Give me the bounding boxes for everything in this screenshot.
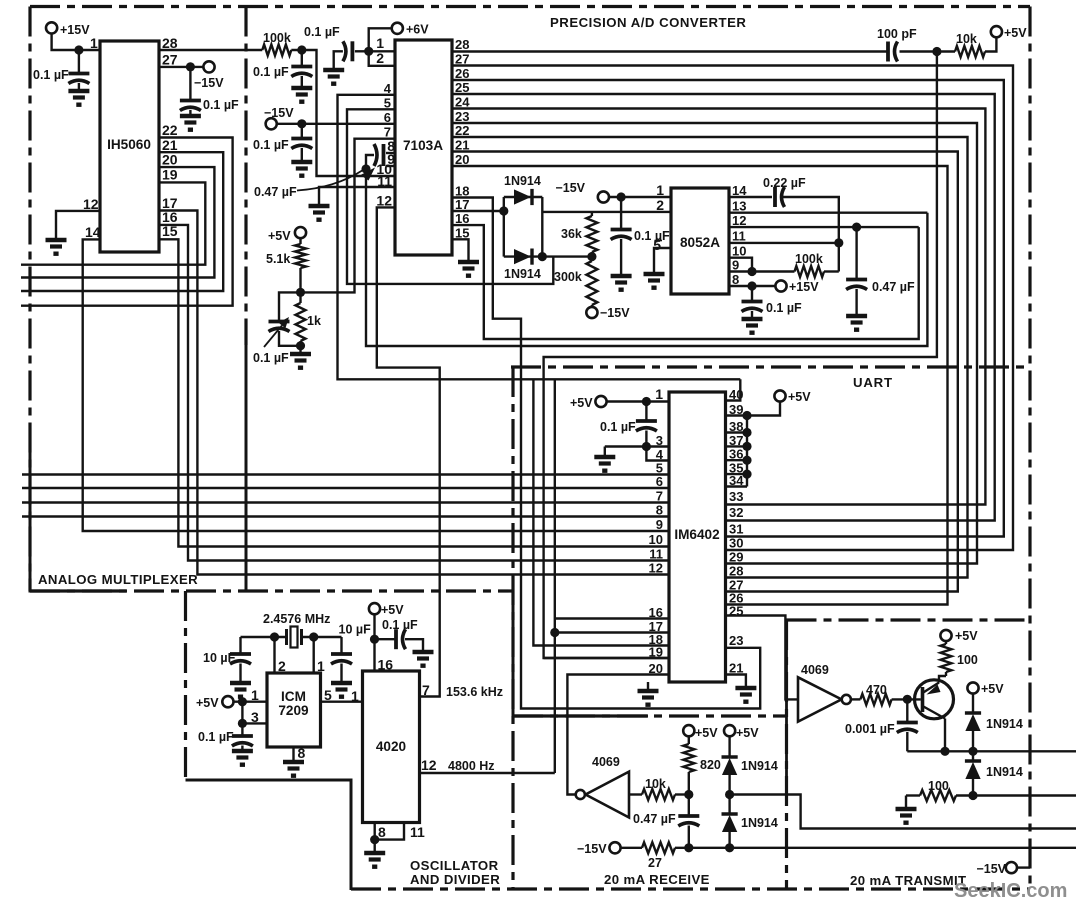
capacitor 10uF left [239, 637, 241, 653]
node pin-17 clock junction [550, 628, 559, 637]
capacitor 0.001uF [906, 699, 908, 721]
UART U4 IM6402 [669, 392, 726, 682]
wire IH5060 pin 27 to -15V [159, 66, 204, 68]
border: left edge of ANALOG MULTIPLEXER box [28, 7, 31, 592]
ground below 0.47uF [846, 314, 867, 318]
bus wire left input to IM6402 pin 8 [22, 515, 669, 517]
ICM7209 pin 8 ground [292, 747, 294, 760]
node 36k/300k junction [587, 252, 596, 261]
terminal +5V at 4020 pin 16 [369, 603, 380, 614]
wire 7103A pin 18 to IM6402 pin 23 (strobe) [452, 198, 760, 709]
resistor 27 [620, 847, 642, 849]
svg-text:OSCILLATOR: OSCILLATOR [410, 858, 499, 873]
svg-text:6: 6 [656, 474, 663, 489]
ground at IH5060 pin 12 [46, 238, 67, 242]
wire IH5060 pin 17 down to bus line 8 (IM6402 pin 12) [159, 211, 669, 575]
1N914 clamp loop wires [503, 197, 505, 257]
svg-text:+5V: +5V [196, 696, 219, 710]
ICM7209 pin 1 stub [313, 637, 315, 673]
ICM7209 pin 2 stub [273, 637, 275, 673]
ground below +6V cap [323, 68, 344, 72]
wire +6V to 7103A pins 1,2 [369, 28, 395, 66]
terminal -15V at pin 27 [203, 61, 214, 72]
svg-text:28: 28 [729, 564, 743, 579]
svg-text:100 pF: 100 pF [877, 27, 917, 41]
node pin-1 bypass junction [642, 397, 651, 406]
ground below 8052A pin-1 cap [611, 274, 632, 278]
wire 7103A pin 7 down to reference divider [300, 139, 395, 293]
svg-text:−15V: −15V [555, 181, 585, 195]
wire IM6402 pin 20 from receive inverter [567, 675, 669, 795]
crystal 2.4576 MHz [285, 629, 288, 645]
bus wire 7103A pin 26 to IM6402 pin 31 [452, 80, 1004, 537]
ground below -15V cap [291, 160, 312, 164]
svg-text:+5V: +5V [268, 229, 291, 243]
svg-text:5: 5 [324, 687, 332, 703]
resistor 100 collector [941, 644, 952, 672]
svg-text:8: 8 [656, 503, 663, 518]
capacitor 0.22 uF [773, 187, 777, 207]
wire 8052A pin 2 to 36k [542, 211, 671, 213]
svg-text:10: 10 [649, 532, 663, 547]
bus wire 7103A pin 24 to IM6402 pin 33 [452, 109, 985, 505]
svg-text:1N914: 1N914 [504, 267, 541, 281]
wire RC node down to IM6402 pin-19 loop [544, 52, 937, 659]
svg-text:0.1 µF: 0.1 µF [33, 68, 69, 82]
ground at IM6402 pin 3 [594, 455, 615, 459]
capacitor 0.1uF at ICM7209 [241, 723, 243, 734]
border: right edge of diagram (A/D, UART, transmit boxes) [1028, 7, 1031, 890]
svg-text:3: 3 [251, 709, 259, 725]
wire +15V to IH5060 pin 1 [52, 33, 100, 50]
node transistor base junction [903, 695, 912, 704]
terminal -15V transmit [1006, 862, 1017, 873]
svg-text:31: 31 [729, 522, 743, 537]
svg-text:22: 22 [162, 122, 178, 138]
node pins 9/10 junction [747, 267, 756, 276]
bus wire 7103A pin 25 to IM6402 pin 32 [452, 94, 995, 521]
wire 8052A pin 12 (to 7103A pin-16 loop) [729, 226, 919, 228]
resistor 470 [851, 698, 860, 700]
svg-text:0.001 µF: 0.001 µF [845, 722, 895, 736]
wire 8052A pin 5 to ground [654, 248, 671, 272]
svg-text:PRECISION A/D CONVERTER: PRECISION A/D CONVERTER [550, 15, 746, 30]
border: solid lower part of multiplexer divider [245, 345, 248, 593]
svg-text:25: 25 [455, 80, 469, 95]
svg-text:12: 12 [649, 561, 663, 576]
ground below left 10uF [230, 681, 251, 685]
svg-text:7209: 7209 [278, 703, 309, 718]
svg-text:2: 2 [278, 658, 286, 674]
svg-text:8: 8 [378, 824, 386, 840]
wire 100k to +6V bypass node and riser to 7103A pin 10 net [291, 50, 395, 176]
svg-text:153.6 kHz: 153.6 kHz [446, 685, 503, 699]
svg-text:1N914: 1N914 [741, 759, 778, 773]
svg-text:+5V: +5V [788, 390, 811, 404]
collector to 100 pull-up [939, 676, 946, 683]
svg-text:4020: 4020 [376, 739, 406, 754]
transistor Q1 (20 mA driver) [915, 680, 954, 719]
wire IM6402 pin 17 [555, 631, 669, 633]
border: solid lower stretch of left edge [29, 445, 32, 593]
bus wire 7103A pin 22 to IM6402 pin 28 [452, 137, 968, 578]
terminal +5V above 820 [683, 725, 694, 736]
wire ICM7209 pin 5 to 4020 pin 1 [321, 701, 363, 703]
bus wire 7103A pin 21 to IM6402 pin 27 [452, 152, 958, 592]
svg-text:10k: 10k [956, 32, 977, 46]
ground below 4020 cap [413, 650, 434, 654]
svg-text:10 µF: 10 µF [203, 651, 236, 665]
capacitor 0.1uF at pin 27 [189, 67, 191, 99]
node pins 3/4 junction [642, 442, 651, 451]
svg-text:0.1 µF: 0.1 µF [253, 138, 289, 152]
svg-text:22: 22 [455, 123, 469, 138]
ground at 8052A pin 5 [644, 272, 665, 276]
node emitter junction [940, 747, 949, 756]
svg-text:100: 100 [957, 653, 978, 667]
svg-text:19: 19 [162, 167, 178, 183]
border: oscillator box left edge [184, 591, 187, 780]
ground below 100k-junction cap [291, 86, 312, 90]
receive loop line to right edge [730, 795, 1076, 829]
4020 pin 11 tie [375, 823, 404, 840]
svg-text:7103A: 7103A [403, 138, 443, 153]
node 0.47uF junction on pin 12 wire [852, 223, 861, 232]
diode 1N914 transmit upper [972, 693, 974, 713]
oscillator U5 ICM7209 [267, 673, 321, 747]
wire IM6402 pin 40 loop [726, 379, 741, 400]
svg-text:0.1 µF: 0.1 µF [304, 25, 340, 39]
terminal +5V above receive diode [724, 725, 735, 736]
border: multiplexer bottom / oscillator top [30, 589, 513, 592]
ground below pin-27 cap [180, 114, 201, 118]
resistor 36k [586, 216, 597, 252]
bus wire left input to IM6402 pin 6 [22, 487, 669, 489]
svg-text:−15V: −15V [194, 76, 224, 90]
terminal +6V [392, 23, 403, 34]
wire IH5060 pin 19 loop to left edge (analog input) [21, 182, 205, 264]
terminal +5V at 10k [991, 26, 1002, 37]
resistor 5.1k with +5V [295, 227, 306, 238]
svg-text:+5V: +5V [570, 396, 593, 410]
svg-text:8: 8 [298, 745, 306, 761]
terminal -15V below 300k [586, 307, 597, 318]
svg-text:0.22 µF: 0.22 µF [763, 176, 806, 190]
ground at transmit 100 [896, 807, 917, 811]
ground at IM6402 pin 20 side [647, 682, 649, 689]
wire 8052A pin 11 [729, 242, 839, 244]
terminal +5V above 100 [940, 630, 951, 641]
wire overlap on divider (pin-25 / loop wire) [785, 620, 788, 796]
svg-text:0.47 µF: 0.47 µF [872, 280, 915, 294]
svg-text:21: 21 [729, 661, 743, 676]
node reference divider bottom [296, 341, 305, 350]
svg-text:AND DIVIDER: AND DIVIDER [410, 872, 500, 887]
terminal +5V above transmit diode [967, 682, 978, 693]
svg-text:4800 Hz: 4800 Hz [448, 759, 495, 773]
wire 7103A pin 15 to ground [452, 239, 469, 260]
resistor 820 pull-up [688, 736, 690, 744]
node reference divider top [296, 288, 305, 297]
svg-text:1: 1 [317, 658, 325, 674]
ground at 7103A pin 15 [458, 260, 479, 264]
vertical tie line pins 40/16/17 and 4800Hz [554, 379, 556, 773]
svg-text:17: 17 [455, 197, 469, 212]
wire 8052A pin 10 jog to pin 9 [729, 258, 752, 272]
bus wire left input to IM6402 pin 5 [22, 473, 669, 475]
svg-text:20 mA TRANSMIT: 20 mA TRANSMIT [850, 873, 966, 888]
wire 7103A pin 11 to ground [319, 187, 395, 204]
wire crystal left to 10uF [241, 636, 287, 638]
wire 8052A pin 13 (to 7103A pin-10 loop) [729, 211, 927, 213]
svg-text:27: 27 [648, 856, 662, 870]
svg-text:20: 20 [162, 152, 178, 168]
emitter to output line [944, 719, 946, 752]
svg-text:300k: 300k [554, 270, 582, 284]
svg-text:+6V: +6V [406, 22, 429, 36]
node 100-ohm junction [968, 791, 977, 800]
svg-text:28: 28 [455, 37, 469, 52]
svg-text:0.1 µF: 0.1 µF [600, 420, 636, 434]
border: overall top edge (ANALOG MULTIPLEXER / PRECISION A/D CONVERTER boxes) [30, 5, 1030, 8]
svg-text:IH5060: IH5060 [107, 137, 151, 152]
capacitor 0.47uF between 7103A pins 8 and 9 [386, 152, 395, 154]
terminal +5V at IM6402 pin 1 [595, 396, 606, 407]
svg-text:21: 21 [455, 138, 469, 153]
node reference cap to pin 10 [361, 164, 370, 173]
svg-text:+15V: +15V [789, 280, 819, 294]
wire +5V to 4020 pin 16 [373, 614, 375, 671]
svg-text:14: 14 [732, 183, 747, 198]
node -15V junction [297, 119, 306, 128]
svg-text:0.1 µF: 0.1 µF [382, 618, 418, 632]
diode 1N914 receive lower [728, 795, 730, 815]
ground below pin-8 cap [742, 317, 763, 321]
border: divider between ANALOG MULTIPLEXER and A/D converter [244, 7, 247, 346]
svg-text:27: 27 [162, 52, 178, 68]
svg-text:13: 13 [732, 199, 746, 214]
wire 7103A pin 28 to 100pF / 10k node [452, 50, 888, 52]
capacitor 0.1uF at -15V line [301, 124, 303, 137]
svg-text:+5V: +5V [736, 726, 759, 740]
wire 7103A pin 17 to 1N914 clamp [452, 210, 504, 212]
node pin-8 bypass junction [747, 281, 756, 290]
svg-text:2: 2 [656, 197, 664, 213]
svg-text:0.47 µF: 0.47 µF [633, 812, 676, 826]
capacitor 0.1uF at IM6402 pin 1 [645, 402, 647, 420]
capacitor 0.1uF at 8052A pin 1 [620, 197, 622, 228]
capacitor 0.1uF at +6V [355, 50, 369, 52]
border: receive/transmit divider [785, 620, 788, 889]
resistor 1k [296, 303, 306, 341]
svg-text:11: 11 [649, 547, 663, 562]
svg-text:ANALOG MULTIPLEXER: ANALOG MULTIPLEXER [38, 572, 198, 587]
node pin1 bypass junction [74, 45, 83, 54]
wire IM6402 pin 25 to transmit inverter [726, 616, 799, 700]
wire 4800 Hz from 4020 pin 12 [420, 772, 555, 774]
svg-text:100: 100 [928, 779, 949, 793]
wire +5V to pin 39 [726, 401, 781, 415]
svg-text:1N914: 1N914 [986, 765, 1023, 779]
svg-text:36k: 36k [561, 227, 582, 241]
wire IM6402 pin 19 (from comparator node) [544, 657, 669, 659]
diode 1N914 upper clamp [514, 189, 531, 204]
capacitor 10uF right [340, 637, 342, 653]
svg-text:0.1 µF: 0.1 µF [634, 229, 670, 243]
node +6V junction [364, 47, 373, 56]
ground at IM6402 pin 21 [735, 686, 756, 690]
svg-text:1: 1 [251, 687, 259, 703]
bus wire 7103A pin 23 to IM6402 pin 29 [452, 123, 977, 564]
terminal +5V at ICM7209 pin 1 [222, 696, 233, 707]
terminal +5V at IM6402 pin 39 [774, 390, 785, 401]
svg-text:12: 12 [83, 196, 99, 212]
border: 20 mA RECEIVE box top [513, 714, 787, 717]
riser from pin-4 line to IM6402 pin 18 [533, 379, 669, 645]
node 27-ohm junctions [684, 843, 693, 852]
wire IH5060 pin 12 to ground [56, 211, 100, 238]
wire IH5060 pin 16 down to bus line 7 (IM6402 pin 11) [159, 225, 669, 561]
svg-text:32: 32 [729, 505, 743, 520]
node crystal right [309, 632, 318, 641]
ground below right 10uF [331, 681, 352, 685]
svg-text:30: 30 [729, 536, 743, 551]
4020 pin 8 ground [374, 823, 376, 840]
svg-text:9: 9 [656, 517, 663, 532]
svg-text:7: 7 [422, 682, 430, 698]
wire 7103A pin 4 to IM6402 pin-40 net [338, 95, 741, 380]
svg-text:9: 9 [732, 258, 739, 273]
svg-text:29: 29 [729, 550, 743, 565]
svg-text:28: 28 [162, 35, 178, 51]
svg-text:4069: 4069 [801, 663, 829, 677]
wire IH5060 pin 21 loop to left edge (analog input) [21, 152, 223, 291]
resistor 100k feedback [795, 266, 825, 277]
border: oscillator box solid step bottom-left [186, 780, 352, 890]
border: oscillator right / UART-receive left edge [511, 367, 514, 889]
wire 7103A pin 5 down to diode junction line [347, 109, 553, 284]
svg-text:−15V: −15V [577, 842, 607, 856]
node 4020 supply junction [370, 635, 379, 644]
svg-text:12: 12 [732, 213, 746, 228]
svg-text:2.4576 MHz: 2.4576 MHz [263, 612, 330, 626]
svg-text:24: 24 [455, 95, 470, 110]
node 100k junction [297, 45, 306, 54]
wire IH5060 pin 28 to 100k [159, 49, 262, 51]
svg-text:−15V: −15V [976, 862, 1006, 876]
svg-text:16: 16 [455, 211, 469, 226]
svg-text:23: 23 [455, 109, 469, 124]
svg-text:0.1 µF: 0.1 µF [203, 98, 239, 112]
svg-text:16: 16 [378, 657, 394, 673]
svg-text:100k: 100k [795, 252, 823, 266]
bus wire left input to IM6402 pin 7 [22, 501, 669, 503]
terminal +15V [775, 280, 786, 291]
terminal -15V at 8052A pin 1 [598, 191, 609, 202]
border: bottom edge of diagram [351, 887, 1030, 890]
inverter U7b 4069 (transmit) [798, 677, 842, 721]
svg-text:0.1 µF: 0.1 µF [253, 65, 289, 79]
capacitor 0.1uF at 100k junction [301, 50, 303, 65]
wire 7103A pin 16 to 8052A pin-12 loop [452, 225, 919, 339]
wire 0.22uF to feedback node [782, 197, 839, 272]
capacitor 0.1uF at 8052A pin 8 [751, 286, 753, 300]
resistor 10k to +5V [937, 50, 955, 52]
svg-text:+5V: +5V [1004, 26, 1027, 40]
svg-text:10 µF: 10 µF [339, 623, 372, 637]
svg-text:1N914: 1N914 [986, 717, 1023, 731]
svg-text:100k: 100k [263, 31, 291, 45]
wire ICM7209 pin 3 tie [241, 702, 243, 724]
node clamp cathode junction [538, 252, 547, 261]
resistor 100 to ground [905, 796, 907, 808]
diode 1N914 receive upper [728, 736, 730, 757]
svg-text:12: 12 [421, 757, 437, 773]
divider U6 4020 [363, 671, 420, 823]
wire IM6402 pin 4 tie [646, 447, 669, 461]
node comparator RC junction [932, 47, 941, 56]
diode 1N914 lower clamp [514, 249, 531, 264]
svg-text:5.1k: 5.1k [266, 252, 290, 266]
bus wire 7103A pin 20 to IM6402 pin 26 [452, 166, 948, 605]
svg-text:−15V: −15V [600, 306, 630, 320]
svg-text:0.47 µF: 0.47 µF [254, 185, 297, 199]
svg-text:+5V: +5V [381, 603, 404, 617]
tie rail pins 38-34 to +5V [746, 416, 748, 487]
border: UART box top [511, 365, 1030, 368]
svg-text:1: 1 [90, 35, 98, 51]
node crystal left [270, 632, 279, 641]
wire IH5060 pin 15 down to bus line 6 (IM6402 pin 10) [159, 239, 669, 546]
svg-text:470: 470 [866, 683, 887, 697]
svg-text:0.1 µF: 0.1 µF [766, 301, 802, 315]
svg-text:+5V: +5V [981, 682, 1004, 696]
wire IM6402 pin 3 to ground [605, 445, 669, 447]
svg-text:20 mA RECEIVE: 20 mA RECEIVE [604, 872, 710, 887]
node feedback junction on pin 11 wire [834, 238, 843, 247]
diode 1N914 transmit lower [972, 751, 974, 761]
svg-text:23: 23 [729, 633, 743, 648]
capacitor 0.47uF receive [688, 795, 690, 815]
svg-text:IM6402: IM6402 [674, 527, 720, 542]
svg-text:1: 1 [351, 688, 359, 704]
wire IM6402 pin 16 tie [555, 617, 669, 619]
arrowhead on pin 10 wire [361, 168, 376, 181]
svg-text:33: 33 [729, 489, 743, 504]
svg-text:8052A: 8052A [680, 235, 720, 250]
svg-text:6: 6 [384, 110, 391, 125]
ground at 7103A pin 11 [309, 204, 330, 208]
node 8052A pin-1 junction [617, 192, 626, 201]
svg-text:11: 11 [410, 824, 425, 840]
svg-text:1N914: 1N914 [741, 816, 778, 830]
svg-text:11: 11 [732, 229, 746, 244]
resistor 10k receive [629, 793, 642, 795]
svg-text:1: 1 [655, 386, 663, 402]
svg-text:20: 20 [455, 152, 469, 167]
border: 20 mA TRANSMIT box top [787, 618, 1031, 621]
inverter U7a 4069 (receive) [586, 772, 630, 818]
terminal +15V [46, 22, 57, 33]
wire crystal right to 10uF [302, 636, 342, 638]
wire 7103A pin 12 to 4020 pin 7 (153.6 kHz) [377, 207, 440, 696]
wire IH5060 pin 22 loop to left edge (analog input) [21, 138, 233, 306]
A/D converter U2 7103A [395, 40, 452, 255]
bus wire 7103A pin 27 to IM6402 pin 30 [452, 66, 1013, 551]
svg-text:1: 1 [656, 182, 664, 198]
terminal -15V to 7103A pin 6 [266, 118, 277, 129]
wire 7103A pin 10 node down to 8052A pin-13 loop [366, 176, 927, 346]
